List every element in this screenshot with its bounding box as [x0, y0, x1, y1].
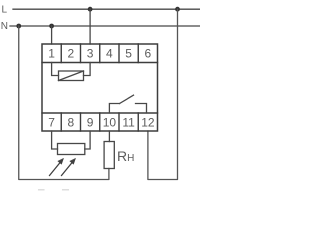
terminal dividers top row — [61, 44, 138, 63]
svg-text:4: 4 — [106, 47, 113, 61]
svg-text:RH: RH — [117, 148, 134, 164]
photoresistor between terminals 7 and 9 — [52, 131, 91, 155]
svg-text:8: 8 — [68, 115, 75, 129]
svg-text:7: 7 — [48, 115, 55, 129]
light arrow left — [50, 159, 64, 176]
junction dot on N (left) — [16, 24, 21, 29]
svg-text:9: 9 — [87, 115, 94, 129]
resistor RH — [104, 131, 114, 169]
wire L to terminal 3 — [89, 9, 91, 44]
svg-text:1: 1 — [48, 47, 55, 61]
terminal dividers bottom row — [61, 113, 138, 131]
svg-text:2: 2 — [68, 47, 75, 61]
wire N to terminal 1 — [51, 26, 53, 44]
terminal strip top row line — [42, 62, 158, 64]
relay contact between terminals 10 and 12 — [109, 95, 146, 113]
svg-text:5: 5 — [125, 47, 132, 61]
svg-text:6: 6 — [145, 47, 152, 61]
terminal strip bottom row line — [42, 112, 158, 114]
junction dot on N (terminal 1 branch) — [49, 24, 54, 29]
svg-text:10: 10 — [103, 115, 117, 129]
wire L line — [13, 8, 200, 10]
light arrow right — [62, 159, 76, 176]
wire L down-right to terminal 12 — [148, 9, 178, 179]
svg-text:12: 12 — [141, 115, 155, 129]
wire N line — [10, 25, 200, 27]
svg-text:11: 11 — [122, 115, 135, 129]
wire N down-left to RH bottom — [19, 26, 109, 180]
svg-text:3: 3 — [87, 47, 94, 61]
junction dot on L (right branch) — [175, 7, 180, 12]
resistor internal element between terminals 1 and 3 — [52, 63, 91, 81]
device box outline — [42, 44, 158, 131]
svg-text:N: N — [1, 21, 8, 32]
svg-text:L: L — [2, 4, 8, 15]
caption remnant marks — [39, 189, 69, 191]
junction dot on L (terminal 3 branch) — [88, 7, 93, 12]
